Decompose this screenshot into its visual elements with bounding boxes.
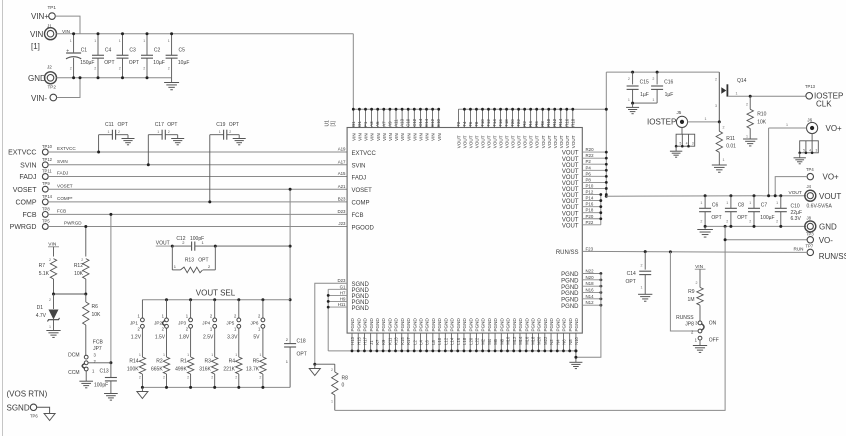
svg-text:OPT: OPT: [626, 279, 636, 285]
svg-text:P20: P20: [586, 214, 594, 219]
U1 PGND pin M8: [499, 318, 504, 353]
svg-text:1: 1: [776, 201, 778, 205]
svg-text:VIN: VIN: [358, 133, 363, 141]
testpoint TP14 COMP: [16, 194, 53, 207]
svg-text:1: 1: [726, 201, 728, 205]
svg-text:M2: M2: [481, 338, 486, 344]
svg-text:JP8: JP8: [685, 321, 694, 327]
svg-text:R12: R12: [552, 118, 557, 127]
capacitor C17 OPT: [147, 122, 184, 166]
svg-text:1: 1: [235, 353, 237, 357]
svg-text:2: 2: [49, 298, 51, 302]
svg-text:COMP: COMP: [352, 201, 370, 207]
capacitor C2 10µF: [141, 32, 165, 79]
svg-text:VIN: VIN: [388, 133, 393, 141]
svg-text:FCB: FCB: [57, 209, 66, 214]
svg-text:OPT: OPT: [118, 122, 128, 128]
svg-text:J5: J5: [677, 110, 682, 115]
U1 VIN pin A9: [387, 108, 393, 141]
svg-text:P18: P18: [586, 208, 594, 213]
U1 VIN pin C14: [418, 108, 424, 141]
svg-text:M14: M14: [518, 336, 523, 345]
signal ground VOUT SEL: [137, 392, 148, 399]
U1 VIN pin C12: [412, 108, 418, 141]
svg-text:3: 3: [692, 142, 694, 146]
svg-text:5: 5: [803, 148, 805, 152]
svg-text:SGND: SGND: [7, 404, 30, 413]
svg-text:C12: C12: [176, 236, 185, 242]
svg-text:PGND: PGND: [487, 318, 492, 332]
svg-text:VIN: VIN: [406, 133, 411, 141]
svg-text:1M: 1M: [688, 297, 695, 303]
svg-text:P10: P10: [586, 183, 594, 188]
svg-text:R11: R11: [726, 136, 735, 142]
svg-text:PGND: PGND: [406, 318, 411, 332]
svg-text:R6: R6: [92, 304, 99, 310]
svg-text:PGND: PGND: [412, 318, 417, 332]
svg-text:1: 1: [187, 353, 189, 357]
svg-text:T2: T2: [456, 121, 461, 127]
testpoint TP7 RUN/SS: [794, 244, 846, 262]
svg-text:CCM: CCM: [68, 370, 79, 376]
svg-text:10K: 10K: [757, 120, 767, 126]
wire VIN rail drop to U1 VIN pins: [352, 34, 354, 110]
U1 VOUT pin T22: [516, 108, 522, 148]
svg-text:F1: F1: [363, 121, 368, 127]
svg-text:PGND: PGND: [419, 318, 424, 332]
svg-text:100K: 100K: [127, 367, 139, 373]
testpoint TP4 VO+: [806, 167, 839, 182]
svg-text:R6: R6: [534, 121, 539, 127]
svg-text:PGND: PGND: [431, 318, 436, 332]
svg-text:1: 1: [94, 39, 96, 43]
svg-text:K7: K7: [375, 339, 380, 345]
svg-text:PGND: PGND: [450, 318, 455, 332]
svg-text:PGND: PGND: [352, 288, 370, 294]
svg-text:C7: C7: [761, 203, 768, 209]
svg-text:VO+: VO+: [823, 173, 840, 182]
capacitor C13 100pF: [92, 363, 118, 400]
svg-text:100pF: 100pF: [190, 236, 204, 242]
wire VOUT output rail: [606, 194, 806, 197]
svg-text:JP3: JP3: [178, 320, 186, 325]
U1 VOUT pin R4: [528, 108, 534, 148]
svg-text:1: 1: [259, 353, 261, 357]
svg-text:SGND: SGND: [352, 282, 370, 288]
svg-text:N4: N4: [555, 339, 560, 345]
svg-text:PGND: PGND: [443, 318, 448, 332]
svg-text:P16: P16: [586, 202, 594, 207]
wire VOUT SEL bottom rail: [142, 386, 290, 388]
U1 PGND pin M10: [506, 318, 511, 353]
svg-text:2: 2: [726, 220, 728, 224]
U1 PGND pin M6: [493, 318, 498, 353]
svg-text:OPT: OPT: [129, 60, 139, 66]
wire VIN+ to VIN rail: [55, 16, 80, 34]
transistor Q14: [715, 72, 747, 122]
svg-text:PGND: PGND: [561, 278, 579, 284]
svg-text:VOUT SEL: VOUT SEL: [196, 289, 236, 298]
testpoint TP1 VIN+: [31, 5, 56, 21]
U1 PGND pin H17: [363, 318, 368, 353]
U1 PGND pin M12: [512, 318, 517, 353]
svg-text:A15: A15: [338, 171, 346, 176]
U1 VIN pin B1: [351, 108, 357, 141]
svg-text:VIN: VIN: [364, 133, 369, 141]
svg-text:1: 1: [108, 130, 110, 134]
svg-text:COMP: COMP: [16, 200, 37, 207]
svg-text:PGND: PGND: [475, 318, 480, 332]
U1 VIN pin A13: [400, 108, 406, 141]
svg-text:PWRGD: PWRGD: [10, 224, 37, 231]
svg-text:PGND: PGND: [493, 318, 498, 332]
svg-text:1: 1: [163, 353, 165, 357]
capacitor C8 OPT: [725, 194, 748, 228]
svg-text:316K: 316K: [199, 367, 211, 373]
svg-text:2: 2: [139, 375, 141, 379]
svg-text:OPT: OPT: [104, 60, 114, 66]
signal ground SGND (U1): [309, 363, 320, 376]
svg-text:1µF: 1µF: [665, 92, 674, 98]
svg-text:C3: C3: [129, 48, 136, 54]
svg-text:1: 1: [641, 286, 643, 290]
svg-text:M18: M18: [530, 336, 535, 345]
resistor R10 10K: [743, 95, 767, 146]
wire VOUT vertical bus A: [605, 72, 608, 198]
U1 VOUT pin T6: [468, 108, 474, 148]
svg-text:VO-: VO-: [819, 236, 834, 245]
svg-text:VOSET: VOSET: [57, 183, 73, 188]
svg-text:1: 1: [70, 39, 72, 43]
svg-text:VOUT: VOUT: [819, 192, 841, 201]
jumper JP1 1.2V: [130, 300, 144, 341]
svg-text:ON: ON: [709, 321, 717, 327]
svg-text:1: 1: [211, 353, 213, 357]
U1 VIN pin E12: [430, 108, 436, 141]
svg-text:P8: P8: [586, 177, 592, 182]
ground at U1 PGND: [569, 349, 582, 368]
svg-text:PGND: PGND: [352, 306, 370, 312]
svg-text:C6: C6: [712, 203, 719, 209]
svg-text:VIN: VIN: [382, 133, 387, 141]
svg-text:1: 1: [628, 98, 630, 102]
wire FADJ row to U1 pin A15: [48, 171, 347, 177]
ground under JP8: [693, 340, 707, 352]
svg-text:A19: A19: [338, 147, 346, 152]
svg-text:TP2: TP2: [48, 85, 57, 90]
connector J6 shield: [794, 134, 819, 164]
svg-text:10µF: 10µF: [153, 60, 165, 66]
svg-text:PGND: PGND: [524, 318, 529, 332]
wire VIN- to GND rail: [57, 78, 80, 98]
svg-text:C8: C8: [738, 203, 745, 209]
U1 VIN pin A7: [381, 108, 387, 141]
svg-text:M22: M22: [543, 336, 548, 345]
svg-text:F23: F23: [586, 246, 594, 251]
svg-text:VIN: VIN: [351, 133, 356, 141]
svg-text:VOUT: VOUT: [469, 135, 474, 148]
svg-text:N14: N14: [586, 294, 595, 299]
resistor R7 5.1K: [39, 258, 57, 294]
svg-text:VIN: VIN: [419, 133, 424, 141]
U1 VOUT pin R6: [534, 108, 540, 148]
svg-text:TP5: TP5: [42, 219, 50, 224]
svg-text:VOUT: VOUT: [493, 135, 498, 148]
wire SVIN row to U1 pin A17: [48, 159, 347, 165]
U1 PGND pin N4: [555, 318, 560, 353]
capacitor C18 OPT: [284, 337, 307, 387]
svg-text:R20: R20: [586, 147, 595, 152]
svg-text:VOUT: VOUT: [463, 135, 468, 148]
svg-text:OPT: OPT: [229, 122, 239, 128]
svg-text:C19: C19: [216, 122, 225, 128]
svg-text:L10: L10: [437, 337, 442, 345]
svg-text:PGND: PGND: [530, 318, 535, 332]
U1 RUN/SS pin F23: [556, 246, 594, 256]
svg-text:1: 1: [49, 325, 51, 329]
U1 PGND pin L4: [419, 318, 424, 353]
svg-text:SVIN: SVIN: [352, 164, 366, 170]
svg-text:1: 1: [139, 353, 141, 357]
svg-text:1.2V: 1.2V: [131, 335, 142, 341]
svg-text:K9: K9: [381, 339, 386, 345]
svg-text:100µF: 100µF: [760, 215, 774, 221]
svg-text:TP4: TP4: [806, 167, 814, 172]
U1 VOUT pin T14: [492, 108, 498, 148]
svg-text:H7: H7: [340, 290, 346, 295]
svg-text:1: 1: [705, 117, 707, 121]
capacitor C11 OPT: [97, 122, 134, 154]
svg-text:VIN: VIN: [30, 30, 44, 39]
op-amp U1 module body: [347, 128, 582, 334]
wire C15-C16 ground rail: [626, 102, 657, 114]
U1 PGND pin H15: [356, 318, 361, 353]
svg-text:VO+: VO+: [826, 124, 843, 133]
svg-text:K11: K11: [387, 337, 392, 345]
U1 bottom PGND pin bus: [328, 350, 576, 352]
label U1 [1]: [325, 120, 337, 127]
svg-text:499K: 499K: [175, 367, 187, 373]
U1 top VIN pin bus: [353, 108, 438, 110]
svg-text:C1: C1: [81, 48, 88, 54]
svg-text:PGND: PGND: [400, 318, 405, 332]
resistor R12 10K: [74, 258, 89, 294]
svg-text:VOUT: VOUT: [511, 135, 516, 148]
U1 left PGND pins G1-H11: [328, 284, 369, 312]
svg-text:RUN/SS: RUN/SS: [819, 252, 846, 261]
svg-text:R2: R2: [522, 121, 527, 127]
svg-text:VOUT: VOUT: [505, 135, 510, 148]
wire VOSET to divider: [289, 188, 292, 344]
svg-text:VIN: VIN: [412, 133, 417, 141]
jumper JP7 FCB (DCM/CCM): [68, 340, 103, 377]
svg-text:C12: C12: [412, 118, 417, 127]
capacitor C4 OPT: [92, 32, 115, 79]
svg-text:H13: H13: [350, 336, 355, 344]
svg-text:1: 1: [749, 201, 751, 205]
svg-text:2: 2: [163, 375, 165, 379]
wire TP4 to VOUT rail: [775, 177, 807, 196]
testpoint TP10 EXTVCC: [8, 144, 53, 157]
wire PWRGD row to U1 pin J23: [48, 221, 347, 227]
svg-text:SVIN: SVIN: [20, 162, 36, 169]
U1 PGND pin L14: [450, 318, 455, 353]
svg-text:4: 4: [686, 142, 688, 146]
svg-text:PGND: PGND: [561, 297, 579, 303]
svg-text:2: 2: [715, 78, 717, 82]
svg-text:VOUT: VOUT: [547, 135, 552, 148]
svg-text:A3: A3: [369, 121, 374, 127]
zener diode D1 4.7V: [36, 294, 61, 337]
svg-text:E12: E12: [430, 118, 435, 126]
svg-text:R7: R7: [39, 263, 46, 269]
svg-text:R1: R1: [180, 359, 187, 365]
svg-text:[1]: [1]: [331, 120, 337, 126]
svg-text:2: 2: [235, 375, 237, 379]
capacitor C15 1uF: [627, 71, 649, 104]
svg-text:RUN: RUN: [794, 247, 804, 252]
svg-text:PGND: PGND: [506, 318, 511, 332]
svg-text:6.3V: 6.3V: [791, 216, 802, 222]
net label VIN (R7 pullup): [48, 242, 59, 257]
svg-text:R13: R13: [185, 258, 194, 264]
testpoint TP3 VO-: [724, 231, 834, 245]
U1 PGND pin N10: [574, 318, 579, 353]
svg-text:TP6: TP6: [30, 414, 38, 419]
svg-text:T10: T10: [480, 119, 485, 127]
svg-text:J2: J2: [47, 65, 52, 70]
U1 PGND pin L18: [462, 318, 467, 353]
svg-text:R10: R10: [757, 112, 766, 118]
svg-text:13.7K: 13.7K: [246, 367, 260, 373]
U1 VIN pin D1: [357, 108, 363, 141]
svg-text:OPT: OPT: [297, 352, 307, 358]
resistor R2 665K: [151, 328, 170, 389]
svg-text:T8: T8: [474, 121, 479, 127]
jumper JP4 2.5V: [202, 298, 216, 340]
svg-text:J8: J8: [807, 216, 812, 221]
svg-text:A9: A9: [387, 121, 392, 127]
svg-text:H9: H9: [340, 296, 346, 301]
svg-text:VOUT: VOUT: [475, 135, 480, 148]
svg-text:PGND: PGND: [555, 318, 560, 332]
svg-text:3: 3: [715, 104, 717, 108]
svg-text:R5: R5: [253, 359, 260, 365]
svg-text:GND: GND: [819, 223, 837, 232]
wire VOSET row to U1 pin A21: [48, 183, 347, 189]
svg-text:2: 2: [652, 77, 654, 81]
svg-text:1: 1: [168, 39, 170, 43]
svg-text:M4: M4: [487, 338, 492, 344]
U1 VOUT pin T10: [480, 108, 486, 148]
U1 PGND pin M20: [537, 318, 542, 353]
U1 VIN pin C10: [406, 108, 412, 141]
svg-text:JP6: JP6: [250, 320, 258, 325]
U1 VOUT pin T8: [474, 108, 480, 148]
svg-text:E14: E14: [424, 118, 429, 126]
svg-text:J6: J6: [807, 118, 812, 123]
U1 VIN pin E14: [424, 108, 430, 141]
svg-text:K15: K15: [400, 337, 405, 345]
wire RUN/SS row: [582, 251, 807, 252]
connector J4 VOUT: [789, 184, 842, 210]
resistor R4 221K: [223, 328, 242, 389]
testpoint TP2 VIN-: [31, 94, 57, 103]
svg-text:N12: N12: [586, 300, 595, 305]
svg-text:OPT: OPT: [711, 215, 721, 221]
svg-text:2: 2: [168, 67, 170, 71]
wire FCB row to U1 pin D23: [48, 209, 347, 215]
svg-text:VOUT: VOUT: [529, 135, 534, 148]
svg-text:R10: R10: [546, 118, 551, 127]
wire VOUT vertical bus B: [599, 193, 602, 225]
svg-text:P22: P22: [586, 220, 594, 225]
svg-text:VOUT: VOUT: [487, 135, 492, 148]
svg-text:1: 1: [723, 158, 725, 162]
svg-text:FCB: FCB: [93, 340, 104, 346]
svg-text:1.5V: 1.5V: [155, 335, 166, 341]
U1 PGND pin M22: [543, 318, 548, 353]
svg-text:FADJ: FADJ: [19, 174, 36, 181]
svg-text:VOSET: VOSET: [352, 188, 373, 194]
svg-text:2: 2: [723, 126, 725, 130]
U1 PGND pin L6: [425, 318, 430, 353]
svg-text:P2: P2: [586, 159, 592, 164]
svg-text:COMP*: COMP*: [57, 196, 73, 201]
capacitor C12 100pF: [171, 236, 290, 251]
wire FCB row to C13: [88, 213, 112, 364]
svg-text:P6: P6: [586, 171, 592, 176]
svg-text:2: 2: [168, 130, 170, 134]
svg-text:P14: P14: [586, 196, 594, 201]
svg-text:1: 1: [652, 98, 654, 102]
svg-text:VOUT: VOUT: [499, 135, 504, 148]
connector J5 IOSTEP: [647, 110, 688, 128]
svg-text:FCB: FCB: [23, 212, 37, 219]
svg-text:PGND: PGND: [561, 304, 579, 310]
capacitor C7 100µF: [748, 194, 775, 228]
svg-text:VOSET: VOSET: [13, 187, 37, 194]
U1 PGND pin L2: [412, 318, 417, 353]
svg-text:VIN+: VIN+: [31, 12, 49, 21]
svg-text:OPT: OPT: [737, 215, 747, 221]
resistor R9 1M: [688, 287, 704, 321]
svg-text:2: 2: [187, 375, 189, 379]
svg-text:PGND: PGND: [518, 318, 523, 332]
svg-text:N10: N10: [574, 336, 579, 344]
svg-text:B1: B1: [351, 121, 356, 127]
U1 PGND pin L22: [475, 318, 480, 353]
svg-text:M8: M8: [499, 338, 504, 344]
svg-text:VIN: VIN: [431, 133, 436, 141]
svg-text:TP14: TP14: [42, 194, 53, 199]
svg-text:R4: R4: [229, 359, 236, 365]
svg-text:SVIN: SVIN: [57, 159, 68, 164]
jumper JP8 RUN/SS ON/OFF: [676, 315, 719, 344]
svg-text:VIN: VIN: [394, 133, 399, 141]
resistor R14 100K: [127, 328, 146, 389]
resistor R8 0: [315, 364, 348, 410]
svg-text:L12: L12: [443, 337, 448, 345]
svg-text:C18: C18: [297, 339, 306, 345]
wire Q14 to TP13: [728, 92, 806, 97]
svg-text:D1: D1: [357, 121, 362, 127]
U1 VOUT pin T12: [486, 108, 492, 148]
connector J1 VIN: [30, 24, 71, 52]
wire GND to VO- vertical: [724, 225, 727, 240]
U1 VOUT pin T18: [504, 108, 510, 148]
U1 PGND pin L20: [468, 318, 473, 353]
